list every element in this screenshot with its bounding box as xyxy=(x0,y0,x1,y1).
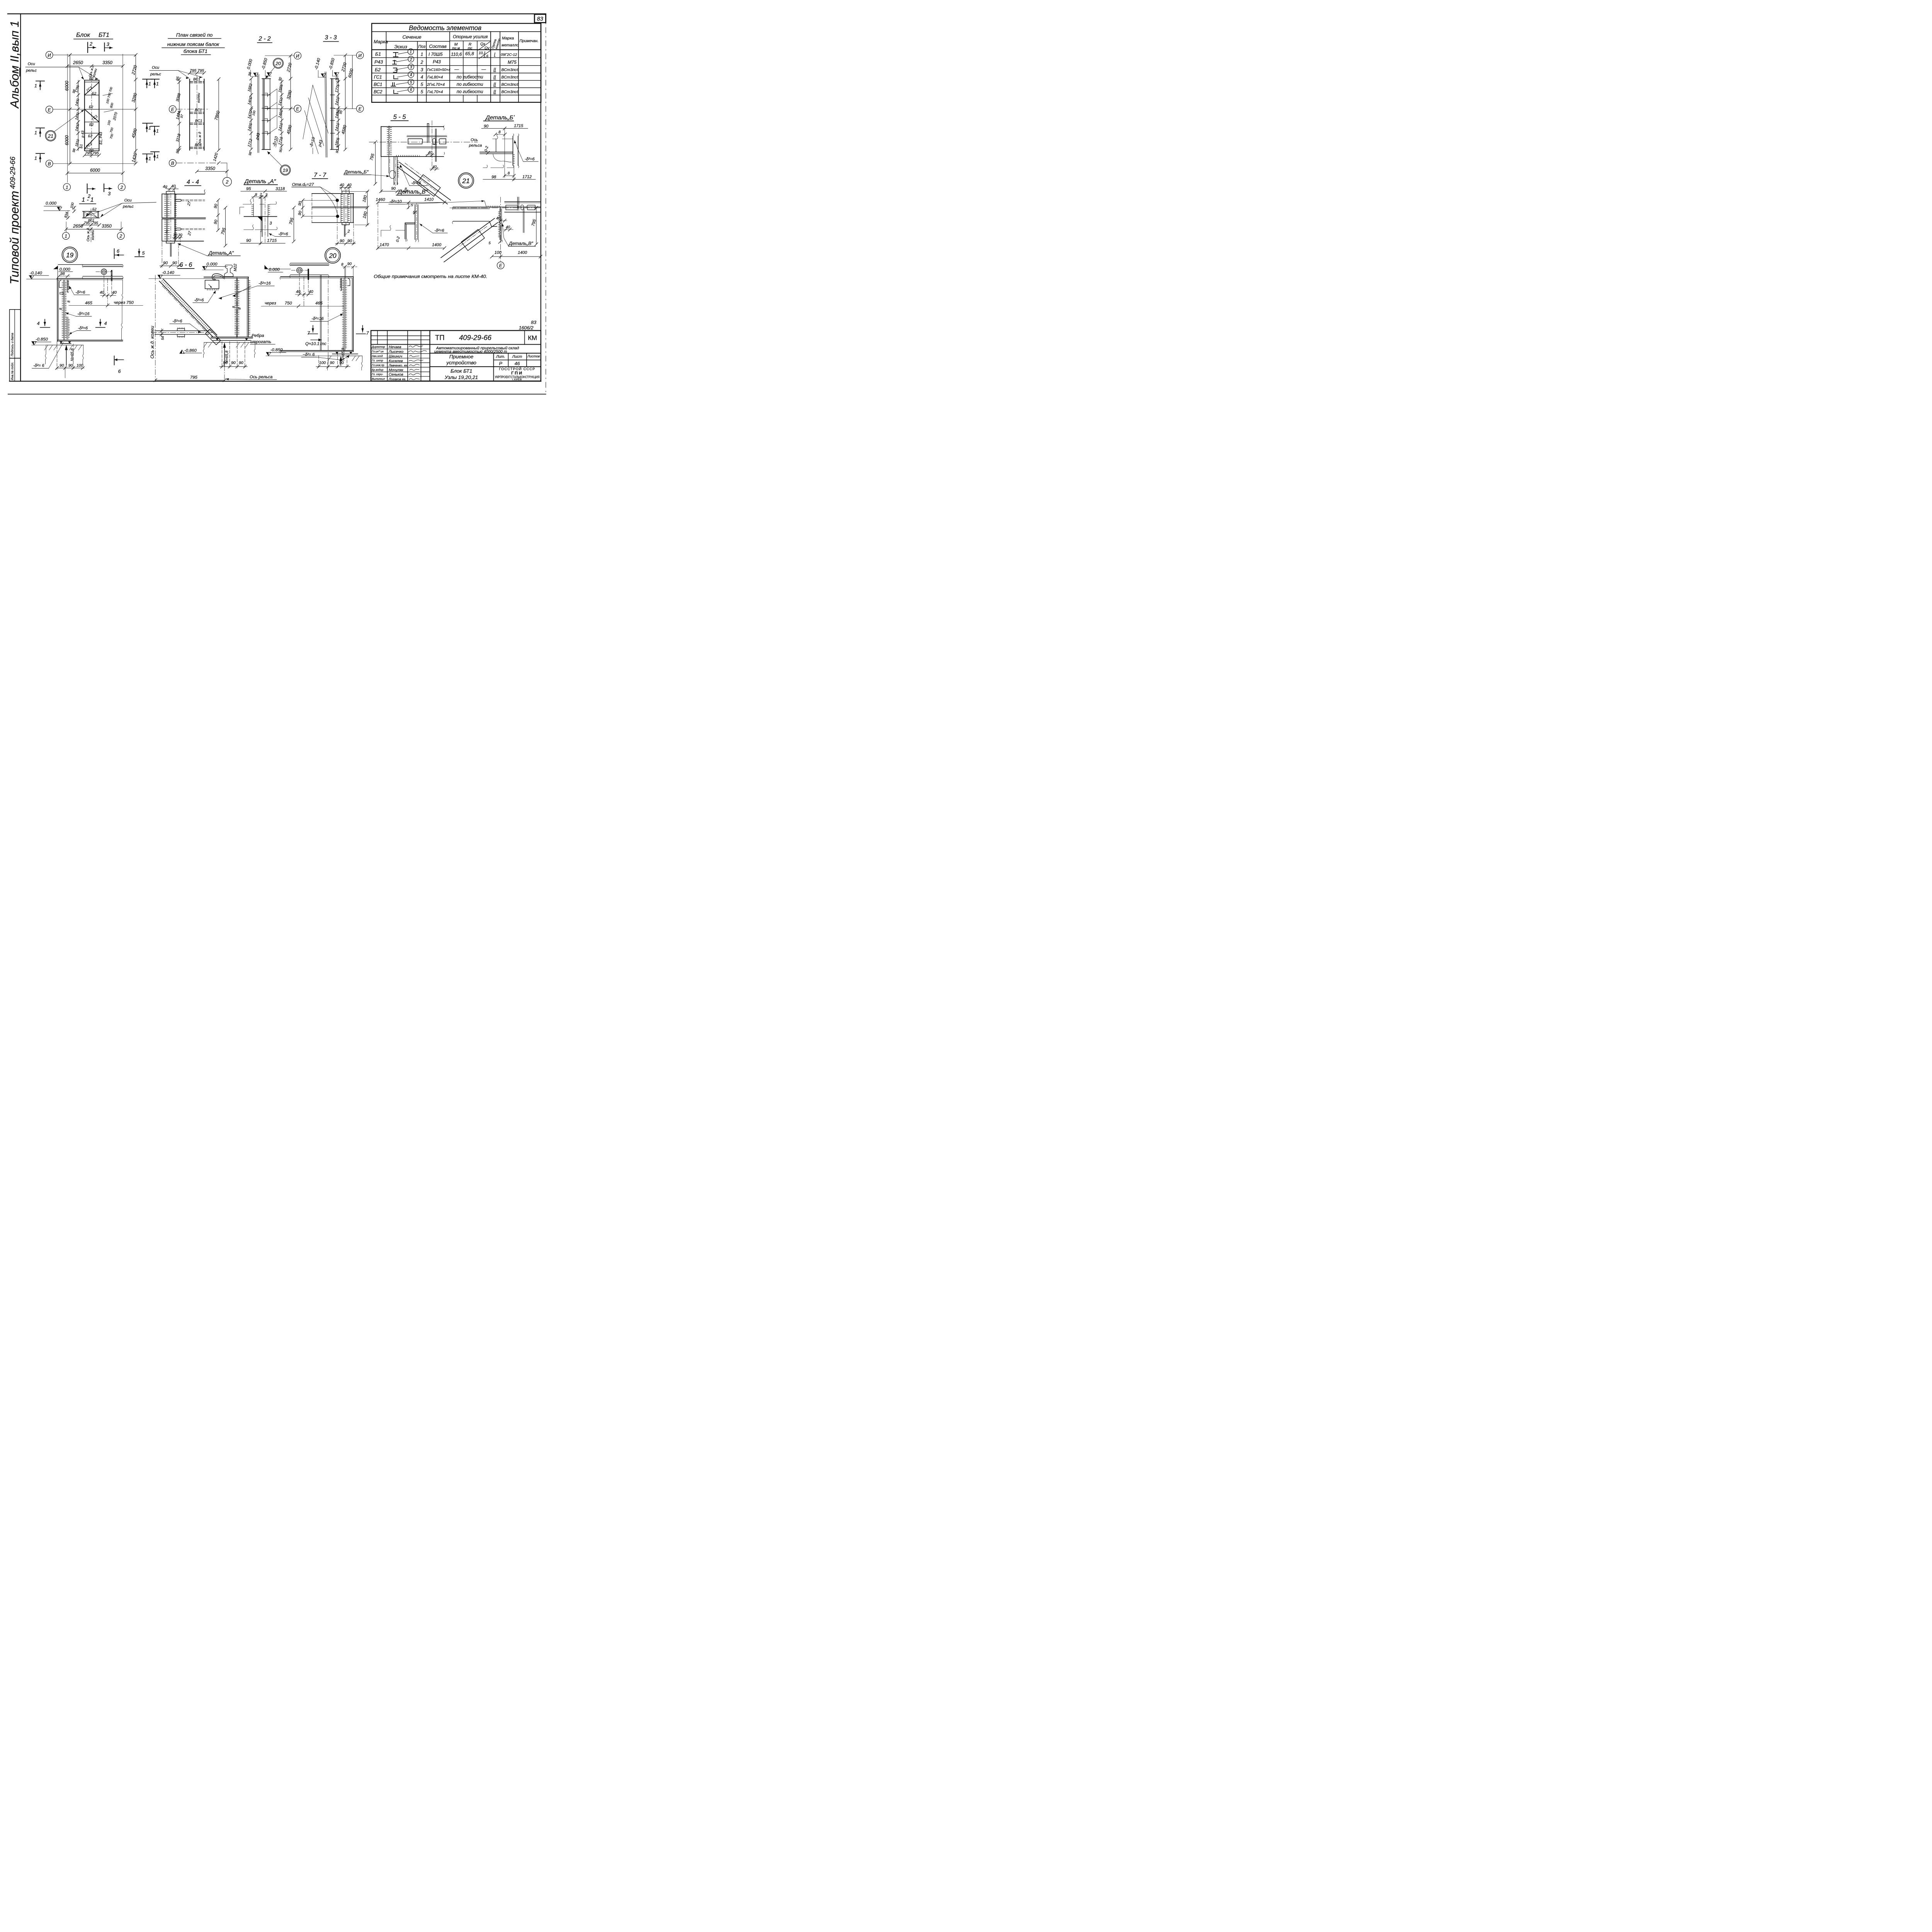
svg-text:6000: 6000 xyxy=(65,135,70,145)
0.000 level xyxy=(53,266,58,269)
web verticals xyxy=(260,198,262,232)
svg-text:20: 20 xyxy=(328,252,337,260)
svg-text:Ось ж.д. колеи: Ось ж.д. колеи xyxy=(150,326,155,359)
svg-text:ВСт3пс6: ВСт3пс6 xyxy=(501,90,519,94)
foundation xyxy=(328,355,362,357)
Osi rels label with leaders xyxy=(122,199,134,209)
svg-text:1460: 1460 xyxy=(376,197,385,202)
paper right edge dashed xyxy=(545,14,547,394)
section marks 6 and 5 above xyxy=(112,249,116,259)
svg-text:колеи: колеи xyxy=(197,93,201,103)
svg-text:6: 6 xyxy=(410,88,412,92)
svg-text:-0.850: -0.850 xyxy=(36,337,48,342)
beam top flange xyxy=(281,275,353,279)
middle small dims 100 700 700 800 2070 xyxy=(103,87,119,139)
svg-text:Поз: Поз xyxy=(418,44,425,49)
drawing: node 19 xyxy=(27,248,145,378)
hatched plate edges xyxy=(253,204,255,216)
grid circles 1,2 xyxy=(62,232,69,239)
svg-text:6: 6 xyxy=(117,248,119,254)
svg-text:через 750: через 750 xyxy=(114,301,134,305)
Q=10.1 arrow xyxy=(311,339,321,341)
svg-text:-δ²=16: -δ²=16 xyxy=(311,316,324,321)
svg-text:90: 90 xyxy=(163,261,168,265)
svg-text:54: 54 xyxy=(161,336,165,340)
long diagonal hatch lines xyxy=(303,85,328,154)
rail assembly top right xyxy=(505,201,540,203)
svg-text:рельс: рельс xyxy=(150,72,162,77)
small brackets at panels xyxy=(264,93,267,135)
svg-text:N=65,8: N=65,8 xyxy=(70,348,75,361)
page number 83 text xyxy=(537,16,543,22)
svg-text:2650: 2650 xyxy=(73,60,83,65)
diagonal brace down-left xyxy=(444,223,498,262)
top/bottom flanges xyxy=(262,77,270,80)
Qx/Qy diagonal in header and row1 xyxy=(478,42,490,50)
beam verticals (slightly tilted look kept vertical) xyxy=(325,72,326,157)
svg-text:5: 5 xyxy=(488,241,491,245)
svg-text:Типовой проект: Типовой проект xyxy=(7,191,21,284)
vertical lines left part xyxy=(376,330,379,344)
svg-text:Узлы 19,20,21: Узлы 19,20,21 xyxy=(444,374,478,380)
svg-text:В: В xyxy=(48,161,51,167)
L angle left xyxy=(405,221,415,225)
svg-text:Гл. интр: Гл. интр xyxy=(372,359,383,362)
bottom plate and bolt xyxy=(342,223,349,225)
svg-text:90: 90 xyxy=(484,124,488,129)
svg-text:Директор: Директор xyxy=(371,345,385,349)
svg-text:нижним поясам балок: нижним поясам балок xyxy=(167,41,219,47)
row1 I-beam sketch xyxy=(393,53,398,57)
svg-text:-δ²=6: -δ²=6 xyxy=(78,326,88,330)
svg-text:ТП: ТП xyxy=(435,333,444,342)
bottom flange and base plate xyxy=(281,349,353,352)
795 795 top dim xyxy=(190,72,204,74)
svg-text:90: 90 xyxy=(223,361,228,365)
svg-text:795: 795 xyxy=(92,221,98,225)
VS1 braces (double dashed) xyxy=(190,82,204,148)
svg-text:Шеинич: Шеинич xyxy=(389,354,402,359)
Os zhd kolei axis xyxy=(155,275,156,382)
svg-text:металло: металло xyxy=(502,43,519,48)
svg-text:Марка: Марка xyxy=(502,36,514,41)
osi rels label top left xyxy=(26,62,37,73)
base plate xyxy=(60,342,71,345)
drawing: node 21 detail xyxy=(389,197,542,269)
general note xyxy=(374,274,487,279)
bottom frame xyxy=(10,379,541,384)
right dim 7860 xyxy=(218,79,220,150)
signature squiggles xyxy=(408,345,427,379)
grid horizontal lines xyxy=(53,54,136,56)
right dims 180 180 xyxy=(366,191,368,225)
left margin small boxes xyxy=(10,310,20,381)
table Vedomost elementov xyxy=(372,24,541,102)
19 big circle xyxy=(62,247,77,262)
far right dims 2720/3280/4580 xyxy=(290,56,292,150)
top plate xyxy=(342,191,349,194)
svg-text:1410: 1410 xyxy=(424,197,434,202)
section marks 2,3 bottom xyxy=(85,184,89,193)
svg-text:90: 90 xyxy=(231,361,236,365)
inner left dim chain xyxy=(77,80,79,151)
right frame xyxy=(539,23,543,381)
svg-text:8: 8 xyxy=(67,301,71,303)
vertical plate xyxy=(413,205,417,240)
breaks right xyxy=(443,126,444,130)
svg-text:Ребра: Ребра xyxy=(252,333,264,338)
svg-text:5: 5 xyxy=(420,89,423,94)
right dims 90 90 xyxy=(217,200,219,230)
svg-text:0.000: 0.000 xyxy=(60,267,71,272)
upper horizontal break lines xyxy=(243,204,264,205)
svg-text:Логаков ке.: Логаков ке. xyxy=(388,377,406,381)
svg-text:0.000: 0.000 xyxy=(46,201,57,206)
foundation xyxy=(46,344,83,346)
column lines xyxy=(384,32,388,102)
svg-text:Деталь„А″: Деталь„А″ xyxy=(208,250,234,256)
svg-text:2650: 2650 xyxy=(73,224,83,229)
row3 channel sketch xyxy=(393,68,397,72)
svg-text:1: 1 xyxy=(156,81,159,87)
left dims 90 90 xyxy=(302,200,304,216)
svg-text:Приемное: Приемное xyxy=(449,354,473,360)
sub-header split xyxy=(386,40,449,43)
21 circle xyxy=(458,173,474,188)
svg-text:г.КИЕВ: г.КИЕВ xyxy=(512,378,522,381)
names xyxy=(388,345,408,381)
lower block xyxy=(162,219,175,241)
svg-text:тс.м: тс.м xyxy=(452,46,460,50)
2650/3350 dim xyxy=(66,228,121,230)
svg-text:09Г2С-12: 09Г2С-12 xyxy=(501,53,517,57)
title xyxy=(76,32,109,39)
svg-text:40: 40 xyxy=(296,290,301,294)
795 795 bottom dim xyxy=(85,155,99,156)
anchor stud up xyxy=(426,124,429,143)
svg-text:Подпись и дата: Подпись и дата xyxy=(11,333,14,356)
svg-text:2 - 2: 2 - 2 xyxy=(258,36,271,42)
svg-text:Мочуляк: Мочуляк xyxy=(389,368,403,372)
svg-text:-δ²=6: -δ²=6 xyxy=(75,290,85,295)
paper bottom edge xyxy=(8,393,546,396)
svg-text:Б2: Б2 xyxy=(89,105,93,109)
left dim chain xyxy=(250,79,252,150)
svg-text:Б1: Б1 xyxy=(79,144,83,148)
svg-text:2: 2 xyxy=(410,58,412,62)
weld hatch ticks (as dashed thick strokes) xyxy=(165,195,175,240)
svg-text:строгать: строгать xyxy=(250,340,271,344)
svg-text:-δ²=16: -δ²=16 xyxy=(259,281,271,286)
svg-text:II: II xyxy=(493,89,496,94)
Rebra strogat xyxy=(250,333,271,344)
795 right dim xyxy=(224,208,226,246)
svg-text:Б2: Б2 xyxy=(88,134,92,138)
svg-text:8: 8 xyxy=(508,172,510,176)
grid circles xyxy=(46,51,53,58)
cross-section box xyxy=(83,210,99,213)
svg-text:Листов: Листов xyxy=(527,354,540,358)
svg-text:II: II xyxy=(493,75,496,80)
svg-text:0.000: 0.000 xyxy=(206,262,218,267)
signature labels xyxy=(371,345,385,381)
svg-text:Деталь„Бʼ: Деталь„Бʼ xyxy=(485,114,515,121)
slots xyxy=(175,199,181,201)
20 circle xyxy=(273,58,283,68)
drawing: Detail A xyxy=(240,178,291,245)
svg-text:Е: Е xyxy=(499,263,503,269)
svg-text:-δ²=16: -δ²=16 xyxy=(77,312,90,316)
svg-text:Лит.: Лит. xyxy=(496,355,505,359)
title block xyxy=(371,330,541,381)
panel lines and diagonals xyxy=(85,81,99,83)
svg-text:3350: 3350 xyxy=(205,166,215,171)
bottom flange xyxy=(57,338,122,342)
left dim 6000/6000 xyxy=(69,55,71,163)
3350 bottom dim xyxy=(197,170,227,172)
svg-text:Оси: Оси xyxy=(28,62,35,66)
svg-text:7: 7 xyxy=(366,330,369,336)
svg-text:—: — xyxy=(481,67,486,72)
drawing: section 4-4 xyxy=(160,179,240,267)
rail plan assembly xyxy=(407,135,447,138)
small labels on beam xyxy=(79,64,103,153)
web bottom edge with notch xyxy=(453,221,497,226)
svg-text:7: 7 xyxy=(307,330,310,336)
svg-text:40: 40 xyxy=(428,151,433,155)
svg-text:750: 750 xyxy=(285,301,292,306)
svg-text:6: 6 xyxy=(118,369,121,374)
svg-text:-δ²=6: -δ²=6 xyxy=(278,232,288,236)
svg-text:1 - 1: 1 - 1 xyxy=(82,197,94,203)
svg-text:1715: 1715 xyxy=(514,124,524,128)
svg-text:1400: 1400 xyxy=(518,250,527,255)
row2 rail sketch xyxy=(393,60,396,64)
svg-text:8: 8 xyxy=(59,308,63,310)
bolt with nut xyxy=(433,138,436,145)
svg-text:4g: 4g xyxy=(163,185,167,189)
svg-text:И: И xyxy=(358,53,362,58)
svg-text:М75: М75 xyxy=(508,60,517,65)
svg-text:N=65,8: N=65,8 xyxy=(341,348,345,361)
20 big circle xyxy=(325,248,340,263)
svg-text:795: 795 xyxy=(190,375,197,380)
grid vertical lines xyxy=(66,54,68,182)
section mark 6 bottom xyxy=(112,356,116,365)
svg-text:2: 2 xyxy=(89,41,92,47)
svg-text:-δ²=6: -δ²=6 xyxy=(194,298,204,303)
bottom flange and base xyxy=(211,335,253,339)
svg-text:Гл. сери-: Гл. сери- xyxy=(372,372,383,376)
svg-text:М: М xyxy=(454,43,458,47)
svg-text:Р: Р xyxy=(499,361,502,366)
svg-text:1712: 1712 xyxy=(522,175,532,179)
svg-text:ГнС160×50×4: ГнС160×50×4 xyxy=(427,68,450,72)
svg-text:Б2: Б2 xyxy=(92,207,97,211)
svg-text:40: 40 xyxy=(496,216,501,221)
svg-text:II: II xyxy=(493,82,496,87)
svg-text:Ось ж.д.: Ось ж.д. xyxy=(86,227,90,241)
svg-text:6 - 6: 6 - 6 xyxy=(180,261,193,268)
section mark 3 top xyxy=(102,43,106,51)
svg-text:46: 46 xyxy=(515,361,520,366)
svg-text:Ось: Ось xyxy=(471,138,478,142)
svg-text:—: — xyxy=(454,67,459,72)
lower horizontal line with breaks xyxy=(244,229,277,230)
svg-text:8: 8 xyxy=(238,308,241,310)
svg-text:795: 795 xyxy=(92,151,99,156)
svg-text:8: 8 xyxy=(232,306,236,308)
svg-text:-δ²=6: -δ²=6 xyxy=(525,157,535,162)
svg-text:90: 90 xyxy=(330,361,335,365)
svg-text:Сечение: Сечение xyxy=(402,34,421,40)
svg-text:Левченко. ке.: Левченко. ке. xyxy=(388,364,408,367)
0.000 level xyxy=(265,265,268,269)
svg-text:30: 30 xyxy=(178,233,182,237)
section mark 2 top xyxy=(86,43,90,53)
svg-text:1715: 1715 xyxy=(267,238,277,243)
svg-text:4: 4 xyxy=(104,321,107,326)
lower web xyxy=(260,216,264,236)
svg-text:1: 1 xyxy=(420,51,423,57)
svg-text:3350: 3350 xyxy=(102,224,112,229)
svg-text:795: 795 xyxy=(84,221,90,225)
svg-text:ВС1: ВС1 xyxy=(374,82,382,87)
svg-text:рельса: рельса xyxy=(469,144,482,148)
rail assembly xyxy=(291,262,328,264)
web verticals xyxy=(235,278,237,337)
left end plate xyxy=(56,279,59,342)
beam top flange xyxy=(204,276,248,279)
svg-text:1: 1 xyxy=(410,50,412,54)
left inner frame xyxy=(19,14,23,381)
svg-text:БТ1: БТ1 xyxy=(99,32,109,39)
drawing: section 3-3 xyxy=(303,34,364,157)
drawing: section 6-6 xyxy=(149,261,277,382)
svg-text:р 43: р 43 xyxy=(81,130,85,138)
horizontal chord lines xyxy=(453,206,541,209)
svg-text:100: 100 xyxy=(77,364,83,368)
foundation xyxy=(204,342,255,344)
svg-text:КМ: КМ xyxy=(528,334,537,342)
svg-text:Б2: Б2 xyxy=(89,123,94,127)
svg-text:90: 90 xyxy=(391,187,396,191)
horizontal rows xyxy=(371,335,430,337)
svg-text:Гл.инж.пр: Гл.инж.пр xyxy=(372,364,384,367)
svg-text:83: 83 xyxy=(531,320,536,325)
svg-text:795: 795 xyxy=(85,151,92,156)
svg-text:Деталь „А″: Деталь „А″ xyxy=(244,178,276,185)
svg-text:110,6: 110,6 xyxy=(451,52,462,57)
svg-text:ВСт3пс6: ВСт3пс6 xyxy=(501,68,519,72)
svg-text:И: И xyxy=(48,53,51,58)
bolt axes through beam xyxy=(327,280,329,351)
right break zigzags xyxy=(121,280,123,340)
svg-text:Б1: Б1 xyxy=(375,51,381,57)
svg-text:100: 100 xyxy=(495,250,502,255)
svg-text:Сеньков: Сеньков xyxy=(389,372,403,377)
title row bottom xyxy=(372,30,541,33)
795 795 dim xyxy=(83,224,99,226)
svg-text:Отв.dₒ=27: Отв.dₒ=27 xyxy=(292,182,314,187)
grid lines + circles xyxy=(265,55,294,56)
svg-text:1: 1 xyxy=(148,81,151,87)
svg-text:Б2: Б2 xyxy=(375,67,381,72)
svg-text:-0.140: -0.140 xyxy=(162,270,174,275)
svg-text:5 - 5: 5 - 5 xyxy=(393,114,406,121)
svg-text:5: 5 xyxy=(420,82,423,87)
dim 2650 3350 top xyxy=(67,65,122,67)
section marks 1 left xyxy=(151,79,159,88)
svg-text:ГС1: ГС1 xyxy=(374,75,382,80)
svg-text:90: 90 xyxy=(246,238,251,243)
page number box 83 xyxy=(534,14,546,23)
drawing: Blok BT1 plan xyxy=(26,32,153,199)
row5 double angle sketch xyxy=(391,83,396,86)
svg-text:40: 40 xyxy=(347,183,352,187)
svg-text:1470: 1470 xyxy=(379,243,389,247)
data row lines xyxy=(372,56,541,59)
svg-text:20: 20 xyxy=(275,61,281,66)
splice verticals with hatch xyxy=(341,194,351,223)
svg-text:по гибкости: по гибкости xyxy=(457,89,483,94)
left margin rotated captions xyxy=(7,20,21,284)
vertical lines right part xyxy=(523,330,526,344)
svg-text:7 - 7: 7 - 7 xyxy=(314,172,327,179)
svg-text:90: 90 xyxy=(68,364,73,368)
bent hook plate at top xyxy=(67,280,68,293)
svg-text:Нач.отд: Нач.отд xyxy=(372,354,383,358)
svg-text:Состав: Состав xyxy=(429,44,447,49)
svg-text:Р43: Р43 xyxy=(374,59,383,65)
svg-text:И: И xyxy=(296,53,299,59)
flanges/end plates xyxy=(330,79,338,82)
svg-text:21: 21 xyxy=(48,133,53,139)
svg-text:Бр.водир: Бр.водир xyxy=(372,368,383,371)
svg-text:цемента вместимостью 4000/2500: цемента вместимостью 4000/2500 т xyxy=(434,350,507,354)
signature row lines xyxy=(371,348,430,350)
svg-text:1606/2: 1606/2 xyxy=(519,325,534,331)
svg-text:Киселев: Киселев xyxy=(389,359,403,363)
svg-text:8: 8 xyxy=(341,262,344,267)
web with hatch xyxy=(343,278,345,350)
svg-text:ГОССТРОЙ СССР: ГОССТРОЙ СССР xyxy=(499,367,535,371)
rail clips xyxy=(408,139,423,144)
osi rels xyxy=(150,66,162,77)
svg-text:1: 1 xyxy=(65,233,67,239)
svg-text:колеи: колеи xyxy=(91,230,95,240)
svg-text:-0.140: -0.140 xyxy=(30,271,42,276)
svg-text:Лысечко: Лысечко xyxy=(388,350,404,354)
diagonal leaders xyxy=(267,89,277,96)
svg-text:по гибкости: по гибкости xyxy=(457,75,483,80)
svg-text:95: 95 xyxy=(246,187,251,191)
svg-text:тс: тс xyxy=(468,46,473,50)
svg-text:Ось ж д: Ось ж д xyxy=(198,132,202,145)
svg-text:ГнL80×4: ГнL80×4 xyxy=(427,75,443,80)
svg-text:блока БТ1: блока БТ1 xyxy=(184,48,207,54)
E axis dash + circle xyxy=(500,197,502,261)
svg-text:-δ²=6: -δ²=6 xyxy=(411,181,421,185)
svg-text:ВС2: ВС2 xyxy=(374,89,383,94)
svg-text:Е: Е xyxy=(359,106,362,112)
svg-text:409-29-66: 409-29-66 xyxy=(459,333,492,342)
svg-text:2: 2 xyxy=(420,60,423,65)
svg-text:3: 3 xyxy=(420,67,423,72)
svg-text:0.000: 0.000 xyxy=(269,267,280,272)
drawing: section 2-2 xyxy=(246,36,301,175)
1420 dim right bottom xyxy=(217,162,220,165)
